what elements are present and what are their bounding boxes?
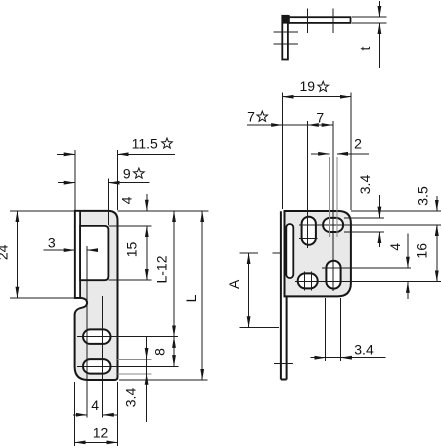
right view: slot row line upper [299,224,441,226]
dimension 9 [58,182,75,184]
dimension t ext lines [352,16,387,18]
right view: slot 2 top extension [344,217,384,219]
left view: step extension [10,297,75,299]
svg-text:3: 3 [48,235,56,251]
dimension 2 [311,153,329,155]
svg-text:11.5: 11.5 [132,135,158,151]
right view: plate top extension [351,210,441,212]
right view: leaf edge below [280,211,282,379]
top view: horizontal leg [283,17,351,23]
svg-text:16: 16 [414,243,430,259]
dimension 19 [282,96,351,98]
right view: notch strip [286,224,293,278]
svg-text:3.4: 3.4 [354,342,374,358]
svg-text:7: 7 [316,110,324,126]
left view: top edge extension left [10,210,75,212]
dimension 3.5 [436,196,438,211]
dimension 3.4 bottom [311,357,386,359]
svg-text:3.5: 3.5 [415,186,431,206]
right view: slot 2 bottom extension [344,231,384,233]
left view: oval 1 centerline [77,336,178,338]
right view: slot 1 [302,217,316,245]
dimension 11.5 [57,153,75,155]
dimension 15 [146,226,148,280]
svg-text:24: 24 [0,244,10,260]
dimension 4 top [146,194,148,211]
left view: slot oval 1 [83,329,111,344]
left view: notch top extension [108,225,151,227]
dimension 24 [16,211,18,298]
svg-text:15: 15 [124,242,140,258]
right view: leaf edge extension line [281,93,283,209]
dimension 3.4 line [146,337,148,422]
left view: bent lip strip [75,211,80,298]
left view: oval 2 centerline [77,365,179,367]
dimension 3.4 right [378,195,380,218]
svg-text:L: L [183,294,199,302]
svg-text:12: 12 [93,425,109,441]
right view: short leaf plate outline [285,211,351,296]
right view: slot column centerline 1 [307,121,309,248]
right view: leaf tick [274,362,293,364]
svg-text:4: 4 [119,196,135,204]
dimension 11.5 ext lines [74,150,76,210]
dimension 3.4 bottom ext lines [325,298,327,361]
top view: leg tick 1 [273,31,298,33]
right view: slot 3 edge ticks [303,272,305,291]
svg-text:4: 4 [387,243,403,251]
dimension 8 [173,337,175,367]
left view: oval 2 bottom extension [118,373,152,375]
top view: hole tick 1 [306,9,308,33]
svg-text:A: A [226,279,242,289]
top view: hole tick 2 [332,9,334,33]
right view: slot 3 centerline [295,281,441,283]
top view: bend corner [282,15,290,23]
dimension 4 bottom [73,414,87,416]
svg-text:t: t [357,46,373,50]
dimension 9 ext line [107,179,109,226]
top view: leg tick 2 [273,43,298,45]
svg-text:L-12: L-12 [154,255,170,283]
dimension A [248,253,250,328]
svg-text:3.4: 3.4 [357,175,373,195]
svg-text:7: 7 [247,108,255,124]
right view: slot 4 [326,261,340,289]
dimension 3 [44,249,75,251]
dimension L-12 [173,211,175,337]
dimension 12 [74,441,117,443]
left view: notch bottom extension [108,279,151,281]
dimension 12 ext lines [73,382,75,446]
svg-text:3.4: 3.4 [123,388,139,408]
dimension 16 [436,225,438,282]
left view: oval 2 top extension [118,358,152,360]
svg-text:4: 4 [91,397,99,413]
svg-text:2: 2 [354,135,362,151]
dimension t [378,1,380,17]
right view: slot 1 lower tick [299,238,318,240]
right view: slot 3 [298,273,318,288]
left view: slot edge line left [86,246,88,418]
svg-text:19: 19 [300,78,316,94]
right view: slot 2 edge lines [328,157,330,237]
right view: slot column centerline 2 [332,121,334,291]
right view: slot 4 upper line [322,267,411,269]
dimension 7star and 7 [247,124,333,126]
svg-text:8: 8 [152,348,168,356]
left view: long leaf plate outline [75,211,118,380]
svg-text:9: 9 [123,165,131,181]
left view: slot edge line right [102,296,104,418]
left view: slot oval 2 [83,359,111,374]
left view: bottom edge extension [119,379,208,381]
dimension 4 right [407,233,409,268]
left view: notch cutout [80,226,108,280]
left view: top edge extension right [118,210,209,212]
right view: slot 2 [323,218,343,232]
top view: vertical leg [282,16,288,60]
dimension L [201,211,203,380]
dimension A ext lines [240,252,259,254]
